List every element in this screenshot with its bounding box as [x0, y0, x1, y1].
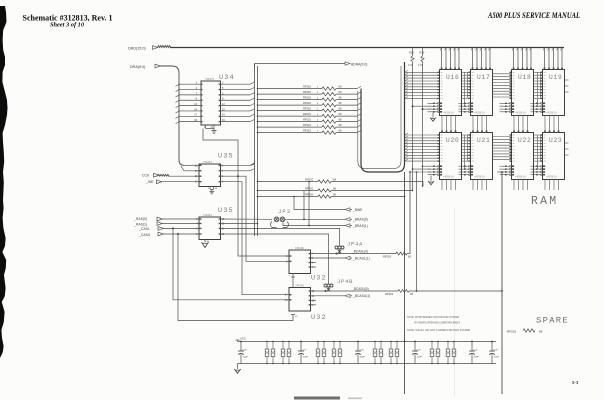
wires: top pin marks bottom RAM row — [441, 131, 443, 133]
net flag _BRAS(0) — [345, 218, 350, 222]
svg-text:10UF: 10UF — [360, 356, 366, 358]
RAM chip U20 44256 body — [440, 133, 462, 180]
svg-text:RP202: RP202 — [303, 101, 311, 105]
svg-text:10UF: 10UF — [243, 356, 249, 358]
svg-text:_BRAS(1): _BRAS(1) — [352, 224, 368, 228]
svg-text:_BCASL(1): _BCASL(1) — [352, 256, 370, 260]
wire U32a out pin4 / BCASL(0) row with RP203 — [311, 253, 397, 255]
wire JP3 to _BRAS(0) flag — [285, 218, 345, 220]
capacitor C39 10uF — [491, 342, 493, 352]
wire: RP203c join address bus vertical — [404, 196, 406, 198]
wire U35a out pin7 — [221, 170, 251, 172]
svg-text:NOTE: U20-23, U32 NOT LOADED F: NOTE: U20-23, U32 NOT LOADED FOR 512K SY… — [407, 328, 470, 332]
svg-text:VCC: VCC — [240, 337, 246, 341]
svg-text:74F244: 74F244 — [203, 213, 212, 217]
ground symbol under U20 control pins — [430, 176, 432, 182]
wires: right edge stubs U16/U18 into gap pairs — [462, 71, 472, 73]
svg-text:74F139: 74F139 — [295, 284, 304, 288]
svg-text:NOTE: JP4 BYPASSES U32 FOR 512: NOTE: JP4 BYPASSES U32 FOR 512K SYSTEM — [407, 315, 459, 319]
svg-text:DRA(9:0): DRA(9:0) — [130, 65, 145, 69]
svg-text:SPARE: SPARE — [536, 317, 569, 326]
svg-text:Sheet 3 of 10: Sheet 3 of 10 — [50, 21, 84, 28]
wire U35b out pin16 to rail — [221, 223, 258, 225]
svg-text:74F244: 74F244 — [203, 160, 212, 164]
svg-text:10UF: 10UF — [474, 356, 480, 358]
svg-text:44256-10: 44256-10 — [516, 112, 527, 115]
svg-text:U19: U19 — [549, 74, 563, 81]
svg-text:RP202: RP202 — [303, 107, 311, 111]
wire U35b out pin12 long to JP4B riser — [221, 234, 329, 284]
wire U35b out pin14 long to JP4A riser — [221, 228, 340, 246]
svg-text:10UF: 10UF — [303, 356, 309, 358]
wire: R16 junction to top RAM control — [422, 108, 424, 110]
svg-text:4.7K: 4.7K — [418, 64, 423, 67]
resistor pack row RP201 bit 7 — [258, 126, 323, 128]
wires: vertical links U18-U19 gap — [537, 72, 539, 98]
capacitor C18 10uF — [357, 342, 359, 352]
wire U34 input row pin 4 — [179, 89, 201, 91]
wire U32b out pin12 / BCASU(0) row with RP203 — [311, 290, 399, 292]
wire: second riser right of bus — [416, 172, 418, 291]
wire U34 output row pin 9 — [221, 99, 251, 101]
wire U34 input row pin 3 — [179, 83, 201, 85]
net flag BDRA(9:0) — [345, 62, 350, 65]
capacitor C20 10uF — [471, 342, 473, 352]
svg-text:U17: U17 — [477, 74, 491, 81]
wires: control rows to other top RAM chips — [459, 105, 463, 107]
scan artifact: ragged black strip on left page edge — [0, 6, 8, 358]
svg-text:RP201: RP201 — [303, 123, 311, 127]
RAM chip U16 44256 body — [440, 70, 462, 116]
wires: stubs below bottom RAM row — [441, 180, 443, 191]
svg-text:RP201: RP201 — [303, 129, 311, 133]
stubs U32b pins 10,9 — [311, 299, 317, 301]
resistor pair RP spare 2 — [282, 342, 284, 350]
resistor pack row RP201 bit 5 — [258, 115, 323, 117]
resistor pair RP spare 1 — [266, 342, 268, 350]
wire: BDRA bus from U34 outputs — [254, 64, 256, 68]
wire U35a out pin9 to bus rail — [221, 164, 251, 166]
resistor pair RP spare 4 — [333, 342, 335, 350]
U18 address pin ticks — [510, 72, 512, 73]
wires: gap vertical pairs extended — [464, 98, 466, 106]
wire U32a enable to U32b — [292, 274, 294, 278]
svg-text:5-3: 5-3 — [572, 380, 579, 385]
capacitor C38 10uF — [240, 342, 242, 352]
U16 control pins WE/RAS/CAS — [428, 102, 438, 104]
U19 control pins WE/RAS/CAS — [531, 102, 541, 104]
svg-text:U23: U23 — [549, 137, 563, 144]
svg-text:_BWE: _BWE — [352, 208, 363, 212]
wire U32b out pin11 to _BCASU(1) flag — [311, 295, 346, 297]
svg-text:68: 68 — [539, 330, 543, 334]
wire U35a out pin3 to U32b pin14 — [221, 182, 290, 295]
svg-text:RP202: RP202 — [303, 96, 311, 100]
svg-text:RP201: RP201 — [303, 112, 311, 116]
wires: vertical links U16-U17 gap — [464, 72, 466, 98]
resistor pair RP spare 5 — [374, 342, 376, 350]
svg-text:44256-10: 44256-10 — [475, 112, 486, 115]
svg-text:RP201: RP201 — [507, 330, 517, 334]
resistor pair RP spare 3 — [317, 342, 319, 350]
net flag _BWE — [294, 197, 345, 210]
resistor pack row RP202 bit 1 — [258, 93, 323, 95]
IC U32b 74F139 body — [289, 288, 311, 312]
wire U35a in pin11 from DRA rail — [184, 164, 199, 166]
wire U35a out pin5 to U32a pin3 — [221, 176, 290, 261]
wire U32a out pin5 to _BCASL(1) flag — [311, 257, 346, 259]
U21 address pin ticks — [469, 134, 471, 135]
svg-text:U32: U32 — [311, 314, 327, 322]
wire _CASL to U35b pin6 — [163, 227, 199, 229]
stubs right edge U23 — [565, 142, 569, 144]
wires: address rows across U17-U18 gap — [493, 73, 512, 75]
resistor row RP203 b — [258, 190, 319, 192]
U20 address pin ticks — [438, 134, 440, 135]
wire: BCASL riser to bottom RAM control — [409, 172, 411, 254]
wire CCK to U35a pin15 — [168, 175, 199, 177]
svg-text:CCK: CCK — [142, 174, 150, 178]
wire U34 input row pin 7 — [179, 94, 201, 96]
stubs U32a pins 6,7 — [311, 262, 317, 264]
U18 control pins WE/RAS/CAS — [500, 102, 510, 104]
bus ripple DRD — [158, 46, 171, 48]
wire _RAS(0) to U35b pin2 — [162, 218, 199, 220]
wires: address rows bus to U16 — [405, 71, 440, 73]
wire: U34 control to U32 (long L wire) — [203, 129, 289, 257]
wire U34 input row pin 13 — [179, 105, 201, 107]
IC U32a 74F139 body — [289, 250, 311, 274]
wires: bottom control row links — [497, 171, 504, 173]
U16 address pin ticks — [438, 72, 440, 73]
svg-text:BDRA(9:0): BDRA(9:0) — [351, 62, 367, 66]
wire U35a in pin13 — [181, 166, 199, 171]
svg-text:RP203: RP203 — [385, 292, 393, 296]
svg-text:_BCASU(1): _BCASU(1) — [352, 294, 370, 298]
U34 enable pins and ground — [205, 125, 207, 129]
ground symbol under U16 control pins — [432, 113, 434, 118]
svg-text:_RAS(0): _RAS(0) — [133, 217, 147, 221]
bus: address bus long vertical to page bottom — [404, 172, 406, 394]
svg-text:RP202: RP202 — [303, 90, 311, 94]
wire: _CASL branch down to U32b pin13 — [172, 227, 174, 229]
wire riser to _BRAS wires — [303, 191, 305, 220]
svg-text:_CASL: _CASL — [138, 227, 150, 231]
wire U34 output row pin 6 — [221, 94, 251, 96]
U23 control pins WE/RAS/CAS — [531, 165, 541, 167]
wires: data chain verticals between RAM rows — [441, 116, 443, 133]
RAM chip U19 44256 body — [543, 70, 565, 116]
svg-text:RP201: RP201 — [303, 118, 311, 122]
bus: CAS long vertical between U21 and U22 to page bottom — [501, 172, 503, 394]
svg-text:10UF: 10UF — [417, 356, 423, 358]
U22 address pin ticks — [510, 134, 512, 135]
resistor pack row RP202 bit 0 — [258, 88, 323, 90]
wire U34 output row pin 16 — [221, 115, 251, 117]
svg-text:_WE: _WE — [145, 180, 154, 184]
svg-text:U16: U16 — [446, 74, 460, 81]
wire _RAS(1) to U35b pin4 — [162, 223, 199, 225]
svg-text:_CASU: _CASU — [138, 233, 151, 237]
U17 control pins WE/RAS/CAS — [459, 102, 469, 104]
svg-text:DRD(15:0): DRD(15:0) — [128, 46, 146, 50]
resistor pack row RP201 bit 8 — [258, 132, 323, 134]
wire: RP203b join R15 line — [412, 190, 414, 192]
svg-text:R15: R15 — [409, 51, 414, 55]
U17 address pin ticks — [469, 72, 471, 73]
capacitor C17 10uF — [300, 342, 302, 352]
U19 address pin ticks — [541, 72, 543, 73]
wire U34 output row pin 2 — [221, 83, 251, 85]
svg-text:JP4A: JP4A — [347, 242, 363, 248]
resistor pack row RP202 bit 2 — [258, 99, 323, 101]
wire U34 input row pin 14 — [179, 110, 201, 112]
wires: DRD bus drops to RAM data pins — [441, 48, 443, 70]
resistor pair RP spare 7 — [431, 342, 433, 350]
wire: RP203a corner up to R16 line — [422, 182, 424, 187]
RAM chip U21 44256 body — [471, 133, 493, 180]
wire: _CASU branch down to U32b enable — [177, 233, 179, 235]
svg-text:RP203: RP203 — [383, 254, 391, 258]
wire U34 input row pin 17 — [179, 115, 201, 117]
scan artifact: dark smudge bottom edge — [294, 397, 340, 400]
wire U34 output row pin 15 — [221, 110, 251, 112]
svg-text:44256-10: 44256-10 — [444, 112, 455, 115]
wire U34 output row pin 19 — [221, 121, 251, 123]
svg-text:RP202: RP202 — [303, 85, 311, 89]
stubs right edge U19 — [565, 79, 569, 81]
jumper JP3 body — [274, 217, 279, 222]
svg-text:10UF: 10UF — [494, 356, 500, 358]
wire: bypass network top rail — [238, 341, 497, 343]
resistor row RP203 c — [258, 196, 319, 198]
wire U34 input row pin 8 — [179, 99, 201, 101]
wire: bypass network bottom rail — [238, 363, 497, 365]
wires: address rows bus to U20 — [405, 134, 440, 136]
RAM chip U22 44256 body — [512, 133, 534, 180]
svg-text:44256-10: 44256-10 — [516, 176, 527, 179]
wire U34 output row pin 5 — [221, 89, 251, 91]
svg-text:U18: U18 — [518, 74, 532, 81]
jumper JP4A — [335, 246, 338, 249]
wire: DRA bus into left vertical rail — [160, 66, 184, 165]
wire U34 output row pin 12 — [221, 105, 251, 107]
svg-text:RAM: RAM — [531, 195, 558, 208]
svg-text:JP3: JP3 — [278, 208, 291, 215]
RAM chip U17 44256 body — [471, 70, 493, 116]
wire _WE to U35a pin17 — [161, 181, 199, 183]
U23 address pin ticks — [541, 134, 543, 135]
capacitor C19 10uF — [414, 342, 416, 352]
svg-text:JP3 SWAPS UPPER AND LOWER RAM: JP3 SWAPS UPPER AND LOWER RAM BANKS — [414, 321, 460, 325]
svg-text:U32: U32 — [311, 275, 327, 283]
wire: U34-out rail hook into U35a row — [251, 161, 255, 165]
junction: bus vertical crossing bypass rail — [404, 341, 406, 343]
U35a enable pins + ground — [209, 187, 211, 190]
wire: vertical rail pair right of U34 (BDRA to RP202) — [254, 64, 256, 237]
wire _CASU to U35b pin8 — [163, 233, 199, 235]
svg-text:74F139: 74F139 — [295, 246, 304, 250]
svg-text:U22: U22 — [518, 137, 532, 144]
wire: DRD data bus horizontal rail — [170, 47, 564, 49]
svg-text:4.7K: 4.7K — [408, 64, 413, 67]
svg-text:A500 PLUS SERVICE MANUAL: A500 PLUS SERVICE MANUAL — [487, 11, 580, 20]
svg-text:U35: U35 — [218, 153, 234, 161]
svg-text:44256-10: 44256-10 — [444, 176, 455, 179]
wire U34 input row pin 18 — [179, 121, 201, 123]
wires: bottom RAM control feeds — [423, 165, 432, 167]
net flag _BRAS(1) — [283, 223, 345, 226]
U21 control pins WE/RAS/CAS — [459, 165, 469, 167]
resistor row RP203 a — [258, 181, 319, 183]
fold crease faint vertical line — [454, 208, 456, 396]
jumper JP4B — [324, 284, 327, 287]
svg-text:_BCASU(0): _BCASU(0) — [351, 287, 369, 291]
U20 control pins WE/RAS/CAS — [428, 165, 438, 167]
RAM chip U18 44256 body — [512, 70, 534, 116]
resistor pack row RP202 bit 3 — [258, 104, 323, 106]
U22 control pins WE/RAS/CAS — [500, 165, 510, 167]
RAM chip U23 44256 body — [543, 133, 565, 180]
svg-text:U35: U35 — [218, 207, 234, 215]
svg-text:44256-10: 44256-10 — [547, 176, 558, 179]
resistor pair RP spare 6 — [390, 342, 392, 350]
wire: R15 junction to top RAM control — [412, 105, 414, 107]
svg-text:_BRAS(0): _BRAS(0) — [352, 218, 368, 222]
IC U35a 74F244 body — [199, 164, 221, 187]
svg-text:JP4B: JP4B — [337, 279, 353, 285]
U35b ground — [204, 240, 206, 243]
ground for bypass network — [237, 364, 239, 370]
svg-text:74F373: 74F373 — [205, 77, 214, 81]
resistor pack row RP202 bit 4 — [258, 110, 323, 112]
IC U34 74F373 address latch body — [201, 81, 221, 125]
svg-text:44256-10: 44256-10 — [475, 176, 486, 179]
resistor pack row RP201 bit 6 — [258, 121, 323, 123]
resistor pair RP spare 8 — [447, 342, 449, 350]
svg-text:44256-10: 44256-10 — [547, 112, 558, 115]
bus: RAM address bus U-shaped run — [361, 62, 405, 172]
svg-text:U20: U20 — [446, 137, 460, 144]
svg-text:_RAS(1): _RAS(1) — [133, 223, 147, 227]
svg-text:_BCASL(0): _BCASL(0) — [351, 249, 368, 253]
IC U35b 74F244 body — [199, 217, 221, 240]
wire U35b out pin18 to JP3 — [221, 218, 273, 220]
svg-text:U21: U21 — [477, 137, 491, 144]
